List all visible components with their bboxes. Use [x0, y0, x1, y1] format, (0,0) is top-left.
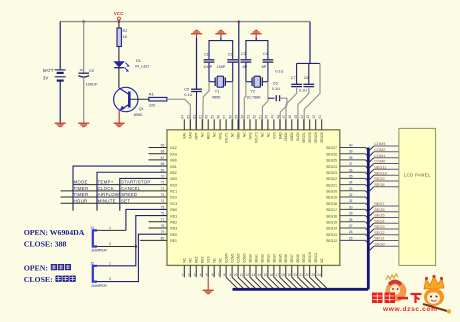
svg-text:RE1: RE1	[170, 239, 177, 243]
svg-text:SEG24: SEG24	[326, 165, 337, 169]
wire keypad column 2	[97, 172, 167, 211]
svg-text:XIN2: XIN2	[248, 132, 252, 139]
svg-text:COM1: COM1	[230, 253, 234, 263]
svg-text:XOUT2: XOUT2	[254, 132, 258, 143]
svg-text:63: 63	[187, 115, 191, 119]
capacitor C4 8P	[262, 52, 274, 69]
svg-text:SEG27: SEG27	[326, 146, 337, 150]
svg-text:SEG12: SEG12	[326, 239, 337, 243]
battery BATT 3V	[43, 68, 66, 81]
svg-text:MODE: MODE	[74, 180, 88, 185]
svg-text:C9: C9	[89, 68, 95, 73]
svg-text:SEG6: SEG6	[374, 207, 384, 212]
svg-text:C3: C3	[241, 52, 246, 56]
svg-text:CANCEL: CANCEL	[121, 186, 141, 191]
wire VDD drop	[238, 22, 240, 130]
ground VSS	[203, 290, 214, 295]
svg-text:www.dzsc.com: www.dzsc.com	[382, 306, 437, 313]
svg-text:KA2: KA2	[170, 146, 177, 150]
svg-text:KB2: KB2	[170, 171, 177, 175]
svg-text:SEG19: SEG19	[326, 196, 337, 200]
svg-text:KB3: KB3	[170, 177, 177, 181]
svg-text:47: 47	[282, 115, 286, 119]
svg-text:SEG0: SEG0	[374, 241, 385, 246]
svg-text:RD2: RD2	[170, 220, 177, 224]
svg-text:1K: 1K	[123, 34, 128, 39]
svg-text:SEG18: SEG18	[326, 202, 337, 206]
wire C2 to Y1	[232, 62, 234, 82]
wire C5 to pin	[195, 92, 197, 130]
svg-text:100UF: 100UF	[86, 81, 99, 86]
svg-text:44: 44	[300, 115, 304, 119]
svg-text:10: 10	[234, 273, 238, 277]
svg-text:R1: R1	[149, 92, 154, 97]
svg-text:RD3: RD3	[170, 227, 177, 231]
svg-text:SEG30: SEG30	[308, 132, 312, 143]
svg-text:22: 22	[305, 273, 309, 277]
svg-text:45: 45	[294, 115, 298, 119]
svg-text:55: 55	[234, 115, 238, 119]
capacitor C2 100P	[217, 53, 239, 69]
svg-text:NC: NC	[260, 132, 264, 137]
svg-text:SEG16: SEG16	[326, 214, 337, 218]
jumper J1	[90, 225, 107, 253]
wire pin79 to J2 pin2	[97, 234, 167, 281]
svg-text:LCD PANEL: LCD PANEL	[404, 172, 431, 177]
svg-text:32.768K: 32.768K	[246, 94, 261, 99]
svg-text:50: 50	[264, 115, 268, 119]
svg-text:START/STOP: START/STOP	[121, 180, 151, 185]
svg-text:34: 34	[349, 181, 353, 185]
svg-text:SEG7: SEG7	[290, 254, 294, 263]
svg-text:EAD: EAD	[278, 132, 282, 139]
svg-text:33: 33	[349, 187, 353, 191]
wire net SEG11	[370, 165, 399, 174]
svg-text:IR_LED: IR_LED	[135, 63, 149, 68]
svg-text:SEG31: SEG31	[302, 132, 306, 143]
svg-text:SEG2: SEG2	[374, 230, 384, 235]
wire ground3 to osc2	[255, 37, 257, 40]
svg-text:100P: 100P	[203, 65, 212, 69]
wire net SEG7	[370, 201, 399, 210]
svg-text:SEG3: SEG3	[374, 224, 384, 229]
node junction R2	[118, 20, 121, 23]
svg-text:27: 27	[349, 224, 353, 228]
svg-text:35: 35	[349, 174, 353, 178]
svg-text:VDD1: VDD1	[284, 132, 288, 141]
svg-text:MPP: MPP	[195, 132, 199, 140]
svg-text:C5: C5	[184, 87, 189, 91]
wire C9 top	[83, 22, 85, 73]
svg-text:J2: J2	[90, 260, 94, 265]
capacitor C3 8P	[241, 52, 252, 69]
svg-text:COM2: COM2	[374, 147, 385, 152]
U1 top pin numbers	[181, 115, 322, 119]
svg-text:12: 12	[246, 273, 250, 277]
svg-text:VSS: VSS	[272, 132, 276, 139]
wire C1 to Y1	[208, 62, 210, 82]
ground top 2	[215, 29, 226, 34]
svg-text:SEG0: SEG0	[248, 254, 252, 263]
svg-text:SEG5: SEG5	[278, 254, 282, 263]
op-amp U1 IC body	[167, 130, 340, 266]
wire net SEG4	[370, 218, 399, 227]
svg-text:MINUTE: MINUTE	[98, 198, 116, 203]
capacitor C5 0.1U	[184, 87, 202, 97]
svg-text:JUMPER: JUMPER	[91, 283, 107, 288]
wire D1 to Q1	[118, 68, 120, 88]
svg-text:SEG29: SEG29	[314, 132, 318, 143]
svg-text:VSS: VSS	[207, 256, 211, 263]
svg-text:SEG14: SEG14	[326, 227, 337, 231]
svg-text:SEG4: SEG4	[374, 218, 385, 223]
svg-text:78: 78	[161, 224, 165, 228]
wire net SEG5	[370, 213, 399, 222]
svg-text:8050: 8050	[134, 112, 143, 117]
wire C7 to pin	[286, 87, 297, 130]
bus horizontal	[233, 288, 369, 291]
connector LCD PANEL	[399, 128, 436, 265]
capacitor C8 0.1U	[299, 63, 314, 92]
svg-text:53: 53	[246, 115, 250, 119]
svg-text:NC: NC	[201, 132, 205, 137]
svg-text:SEG22: SEG22	[326, 177, 337, 181]
svg-text:66: 66	[161, 150, 165, 154]
svg-text:38: 38	[349, 156, 353, 160]
wire keypad row 3	[61, 196, 168, 198]
svg-text:HOUR: HOUR	[74, 198, 88, 203]
svg-text:RC2: RC2	[170, 196, 177, 200]
svg-text:SEG10: SEG10	[308, 252, 312, 263]
wire keypad column 3	[120, 178, 167, 210]
svg-text:COM3: COM3	[242, 253, 246, 263]
svg-text:KA1: KA1	[183, 132, 187, 138]
ground top 3	[251, 29, 262, 34]
wire R2 top	[118, 22, 120, 28]
jumper J2	[90, 260, 107, 288]
svg-text:XOUT1: XOUT1	[225, 132, 229, 143]
svg-text:19: 19	[287, 273, 291, 277]
U1 bottom pin labels	[183, 252, 324, 263]
svg-text:8: 8	[224, 273, 226, 277]
wire net SEG10	[370, 170, 399, 179]
wire net SEG1	[370, 236, 399, 245]
svg-text:SEG15: SEG15	[326, 220, 337, 224]
svg-text:COM0: COM0	[225, 253, 229, 263]
svg-text:30: 30	[349, 205, 353, 209]
svg-text:JUMPER: JUMPER	[91, 248, 107, 253]
svg-text:COM0: COM0	[374, 159, 386, 164]
svg-text:RD1: RD1	[170, 214, 177, 218]
U1 right pin numbers	[349, 144, 353, 241]
svg-text:40: 40	[349, 144, 353, 148]
svg-text:8P: 8P	[243, 65, 248, 69]
svg-text:SEG10: SEG10	[374, 170, 387, 175]
svg-text:SEG1: SEG1	[374, 236, 384, 241]
svg-text:RC1: RC1	[170, 190, 177, 194]
svg-text:KB1: KB1	[170, 165, 177, 169]
wire net SEG6	[370, 207, 399, 216]
svg-text:Q1: Q1	[139, 106, 144, 111]
capacitor C9 100UF	[78, 68, 98, 86]
svg-text:24: 24	[317, 273, 321, 277]
svg-text:73: 73	[161, 193, 165, 197]
svg-text:NC: NC	[242, 132, 246, 137]
crystal Y1 455K	[209, 76, 233, 99]
svg-text:SEG4: SEG4	[272, 254, 276, 263]
svg-text:41: 41	[318, 115, 322, 119]
U1 top pin stubs	[184, 119, 321, 130]
wire keypad row 4	[61, 202, 168, 204]
svg-text:SEG1: SEG1	[254, 254, 258, 263]
U1 left pin labels	[170, 146, 177, 243]
svg-text:48: 48	[276, 115, 280, 119]
wire R2 to D1	[118, 47, 120, 62]
svg-text:NC: NC	[213, 258, 217, 263]
wire C9 bottom	[83, 77, 85, 123]
watermark logo dzsc	[372, 274, 451, 314]
svg-text:SPEED: SPEED	[121, 192, 137, 197]
svg-text:SEG11: SEG11	[314, 252, 318, 263]
svg-text:61: 61	[199, 115, 203, 119]
svg-text:42: 42	[312, 115, 316, 119]
svg-text:0.1U: 0.1U	[272, 87, 280, 91]
svg-text:3: 3	[194, 273, 196, 277]
wire osc2 frame	[246, 41, 268, 60]
resistor R1 220	[149, 92, 167, 108]
wire J1 pin1 to pin75	[126, 209, 167, 230]
node J1 pin2 junction	[134, 245, 137, 248]
svg-text:1: 1	[182, 273, 184, 277]
svg-text:100P: 100P	[217, 65, 226, 69]
svg-text:56: 56	[228, 115, 232, 119]
svg-text:16: 16	[270, 273, 274, 277]
svg-text:NC: NC	[230, 132, 234, 137]
svg-text:NC: NC	[320, 258, 324, 263]
svg-text:VDD2: VDD2	[290, 132, 294, 141]
wire net COM3	[370, 141, 399, 150]
svg-text:D1: D1	[136, 58, 141, 63]
svg-text:70: 70	[161, 174, 165, 178]
svg-text:14: 14	[258, 273, 262, 277]
svg-text:1: 1	[109, 226, 111, 230]
svg-text:OPEN:: OPEN:	[24, 263, 48, 272]
ground battery	[55, 123, 66, 128]
svg-text:SEG8: SEG8	[374, 182, 384, 187]
svg-text:NC: NC	[189, 258, 193, 263]
svg-text:67: 67	[161, 156, 165, 160]
svg-text:32: 32	[349, 193, 353, 197]
svg-text:37: 37	[349, 162, 353, 166]
svg-text:9: 9	[230, 273, 232, 277]
wire Y2 right leg to pin	[262, 82, 268, 130]
svg-text:C7: C7	[291, 76, 296, 80]
wire Y2 left leg to pin	[244, 82, 246, 130]
svg-text:13: 13	[252, 273, 256, 277]
svg-text:7: 7	[218, 273, 220, 277]
svg-text:8P: 8P	[262, 65, 267, 69]
wire net COM2	[370, 147, 399, 156]
wire net COM0	[370, 159, 399, 168]
svg-text:NC: NC	[219, 258, 223, 263]
wire C3 to Y2	[245, 62, 247, 82]
svg-text:80: 80	[161, 236, 165, 240]
svg-text:51: 51	[258, 115, 262, 119]
svg-text:52: 52	[252, 115, 256, 119]
wire net SEG0	[370, 241, 399, 250]
svg-text:79: 79	[161, 230, 165, 234]
resistor R2 1K	[117, 28, 128, 47]
svg-text:NC: NC	[266, 132, 270, 137]
svg-text:60: 60	[205, 115, 209, 119]
svg-text:65: 65	[161, 144, 165, 148]
svg-text:59: 59	[211, 115, 215, 119]
crystal Y2 32.768K	[246, 76, 268, 99]
svg-text:RE2: RE2	[195, 256, 199, 263]
ground C9	[78, 123, 89, 128]
wire net SEG3	[370, 224, 399, 233]
svg-text:TEMP+: TEMP+	[98, 180, 114, 185]
wire VCC rail	[60, 21, 310, 23]
transistor Q1 8050	[114, 87, 149, 117]
svg-text:4: 4	[200, 273, 202, 277]
svg-text:220: 220	[149, 103, 156, 108]
U1 right pin labels	[326, 146, 337, 243]
svg-text:2: 2	[109, 242, 111, 246]
wire net SEG9	[370, 176, 399, 185]
svg-text:29: 29	[349, 212, 353, 216]
svg-text:C6: C6	[273, 81, 278, 85]
wire keypad row 2	[61, 190, 168, 192]
U1 left pin stubs	[149, 148, 168, 229]
svg-text:36: 36	[349, 168, 353, 172]
svg-text:3V: 3V	[43, 76, 48, 81]
svg-text:57: 57	[223, 115, 227, 119]
U1 left pin numbers	[161, 144, 165, 241]
wire battery bottom	[59, 81, 61, 123]
svg-text:COM2: COM2	[236, 253, 240, 263]
wire Y1 left leg to pin	[203, 82, 209, 130]
capacitor C6 0.1U	[268, 81, 280, 101]
svg-text:2: 2	[188, 273, 190, 277]
svg-text:R2: R2	[123, 28, 128, 33]
svg-text:XIN1: XIN1	[219, 132, 223, 139]
svg-text:20: 20	[293, 273, 297, 277]
svg-text:CLOCK: CLOCK	[98, 186, 114, 191]
svg-text:RD0: RD0	[170, 208, 177, 212]
svg-text:15: 15	[264, 273, 268, 277]
svg-text:SEG2: SEG2	[260, 254, 264, 263]
svg-text:SEG5: SEG5	[374, 213, 384, 218]
U1 right pin wires to bus	[340, 148, 369, 244]
ground Q1	[114, 123, 125, 128]
svg-text:SEG17: SEG17	[326, 208, 337, 212]
wire C6 to pin	[280, 98, 287, 130]
wire osc1 frame	[209, 41, 233, 60]
svg-text:SEG20: SEG20	[326, 190, 337, 194]
svg-text:31: 31	[349, 199, 353, 203]
capacitor C7 0.1U	[291, 63, 302, 86]
svg-text:SET: SET	[121, 198, 130, 203]
capacitor C1 100P	[203, 53, 214, 69]
svg-text:75: 75	[161, 205, 165, 209]
svg-text:CLOSE: 388: CLOSE: 388	[24, 240, 67, 249]
wire osc right branch to pin	[304, 63, 320, 129]
wire net SEG2	[370, 230, 399, 239]
svg-text:SEG3: SEG3	[266, 254, 270, 263]
U1 bottom pin numbers	[182, 273, 321, 277]
svg-text:RE0: RE0	[170, 233, 177, 237]
svg-text:C1: C1	[204, 53, 209, 57]
wire R1 to pin KA0	[167, 99, 190, 130]
svg-text:RC0: RC0	[170, 183, 177, 187]
svg-text:RES: RES	[207, 132, 211, 140]
U1 bottom pin stubs and bus entries	[184, 265, 327, 288]
bus vertical	[367, 148, 370, 290]
svg-text:SEG9: SEG9	[374, 176, 384, 181]
svg-text:0.1U: 0.1U	[275, 69, 283, 73]
svg-text:46: 46	[288, 115, 292, 119]
svg-text:RE3: RE3	[201, 256, 205, 263]
svg-text:KB0: KB0	[170, 159, 177, 163]
wire battery top	[59, 22, 61, 70]
wire VSS pin to ground	[207, 265, 209, 277]
svg-text:1: 1	[109, 261, 111, 265]
svg-text:COM1: COM1	[374, 153, 385, 158]
keypad key labels	[74, 180, 151, 204]
node junction C9	[82, 20, 85, 23]
svg-text:NC: NC	[183, 258, 187, 263]
svg-text:71: 71	[161, 181, 165, 185]
svg-text:BATT: BATT	[43, 68, 54, 73]
svg-text:SEG23: SEG23	[326, 171, 337, 175]
svg-text:Y2: Y2	[250, 88, 255, 93]
svg-text:23: 23	[311, 273, 315, 277]
power net VCC symbol	[114, 11, 124, 22]
svg-text:64: 64	[181, 115, 185, 119]
svg-text:AIRFLOW: AIRFLOW	[98, 192, 120, 197]
wire keypad column 1	[73, 166, 167, 211]
svg-text:5: 5	[206, 273, 208, 277]
svg-text:KA3: KA3	[170, 152, 177, 156]
svg-text:17: 17	[276, 273, 280, 277]
svg-text:28: 28	[349, 218, 353, 222]
svg-text:SEG21: SEG21	[326, 183, 337, 187]
svg-text:SEG11: SEG11	[374, 165, 386, 170]
svg-text:KA0: KA0	[189, 132, 193, 138]
wire Q1 emitter	[118, 111, 120, 123]
svg-text:0.1U: 0.1U	[184, 93, 192, 97]
wire VDD corner to C7 C8	[309, 22, 311, 64]
svg-text:49: 49	[270, 115, 274, 119]
svg-text:SEG7: SEG7	[374, 201, 384, 206]
svg-text:58: 58	[217, 115, 221, 119]
svg-text:SEG28: SEG28	[320, 132, 324, 143]
svg-text:43: 43	[306, 115, 310, 119]
svg-text:74: 74	[161, 199, 165, 203]
svg-text:TIMER: TIMER	[74, 186, 89, 191]
wire net SEG8	[370, 182, 399, 191]
node junction VDD drop	[238, 20, 241, 23]
wire Y1 right leg to pin	[232, 82, 234, 130]
svg-text:SEG13: SEG13	[326, 233, 337, 237]
svg-text:CLOSE:: CLOSE:	[24, 275, 53, 284]
svg-text:69: 69	[161, 168, 165, 172]
wire J1 pin1	[97, 229, 126, 231]
svg-text:Y1: Y1	[215, 88, 220, 93]
wire C8 to pin	[298, 87, 309, 130]
svg-text:SEG26: SEG26	[326, 152, 337, 156]
